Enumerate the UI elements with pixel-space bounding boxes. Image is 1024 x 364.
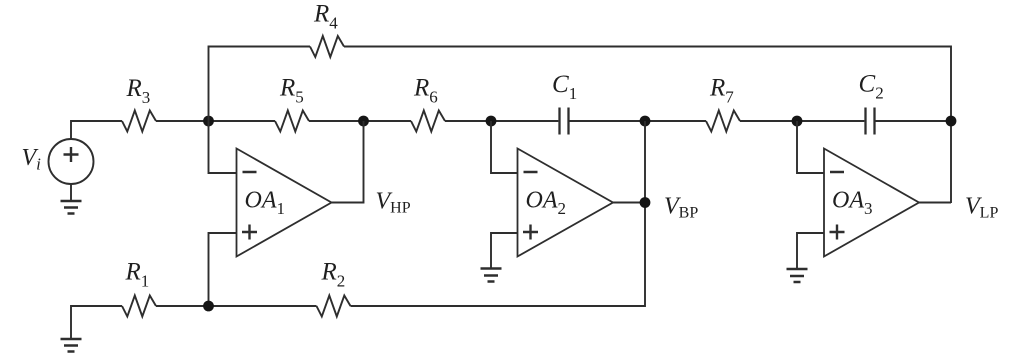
wire OA3 output to right vertical <box>919 202 951 204</box>
capacitor C1 <box>560 108 569 135</box>
svg-text:R7: R7 <box>709 75 734 107</box>
wire R1 to R2 through bottom node <box>156 305 317 307</box>
node VBP top junction dot <box>640 116 651 127</box>
svg-text:R6: R6 <box>413 75 438 107</box>
wire bottom rail left end to ground <box>71 306 122 339</box>
resistor R5 <box>275 111 309 132</box>
wire OA1 output up to VHP node <box>332 121 364 203</box>
resistor R6 <box>411 111 445 132</box>
svg-text:R5: R5 <box>279 75 304 107</box>
svg-text:VBP: VBP <box>664 194 698 222</box>
op-amp OA1 <box>237 149 332 257</box>
svg-text:OA1: OA1 <box>245 188 286 219</box>
svg-text:C2: C2 <box>859 71 884 103</box>
wire R6 to C1 through node B <box>445 120 558 122</box>
wire OA3 noninverting input to ground <box>797 233 824 269</box>
wire R3 to R5 through node A <box>156 120 275 122</box>
svg-text:R1: R1 <box>125 259 150 291</box>
op-amp OA2 <box>518 149 614 257</box>
wire OA1 noninverting input to bottom node <box>209 233 237 306</box>
wire Vi top to R3 <box>71 121 122 139</box>
capacitor C2 <box>866 108 875 135</box>
ground under Vi <box>61 201 82 214</box>
node C junction dot <box>792 116 803 127</box>
wire VBP vertical and bottom rail right segment <box>351 121 646 306</box>
node A junction dot <box>203 116 214 127</box>
op-amp OA3 <box>824 149 919 257</box>
svg-text:R4: R4 <box>313 1 338 33</box>
wire node C down + OA3 inverting input stub <box>797 121 824 173</box>
wire C1 to R7 through VBP top node <box>570 120 707 122</box>
wire top rail right + right-side vertical down to OA3 output <box>344 47 951 204</box>
ground under OA3 <box>787 269 808 282</box>
svg-text:OA3: OA3 <box>832 188 873 219</box>
resistor R7 <box>706 111 740 132</box>
wire C2 to VLP node <box>876 120 952 122</box>
svg-text:R3: R3 <box>126 75 151 107</box>
resistor R1 <box>122 296 156 317</box>
wire R5 to R6 through VHP node <box>309 120 411 122</box>
svg-text:C1: C1 <box>552 71 577 103</box>
resistor R3 <box>122 111 156 132</box>
node B junction dot <box>486 116 497 127</box>
svg-text:Vi: Vi <box>22 145 42 174</box>
wire Vi bottom to ground <box>70 184 72 201</box>
wire OA2 noninverting input to ground <box>491 233 518 269</box>
wire OA2 output to VBP node <box>613 202 645 204</box>
node bottom junction dot <box>203 301 214 312</box>
ground bottom left <box>61 339 82 352</box>
resistor R4 <box>310 36 344 57</box>
resistor R2 <box>317 296 351 317</box>
svg-text:VHP: VHP <box>376 189 411 217</box>
wire node B down + OA2 inverting input stub <box>491 121 518 173</box>
svg-text:VLP: VLP <box>965 194 998 222</box>
ground under OA2 <box>481 269 502 282</box>
node VBP output junction dot <box>640 197 651 208</box>
source Vi <box>49 139 94 184</box>
wire R7 to C2 through node C <box>740 120 864 122</box>
node VLP junction dot <box>946 116 957 127</box>
node VHP junction dot <box>358 116 369 127</box>
svg-text:R2: R2 <box>321 259 346 291</box>
wire top rail left + node A vertical + OA1 inverting input stub <box>209 47 311 174</box>
svg-text:OA2: OA2 <box>526 188 567 219</box>
